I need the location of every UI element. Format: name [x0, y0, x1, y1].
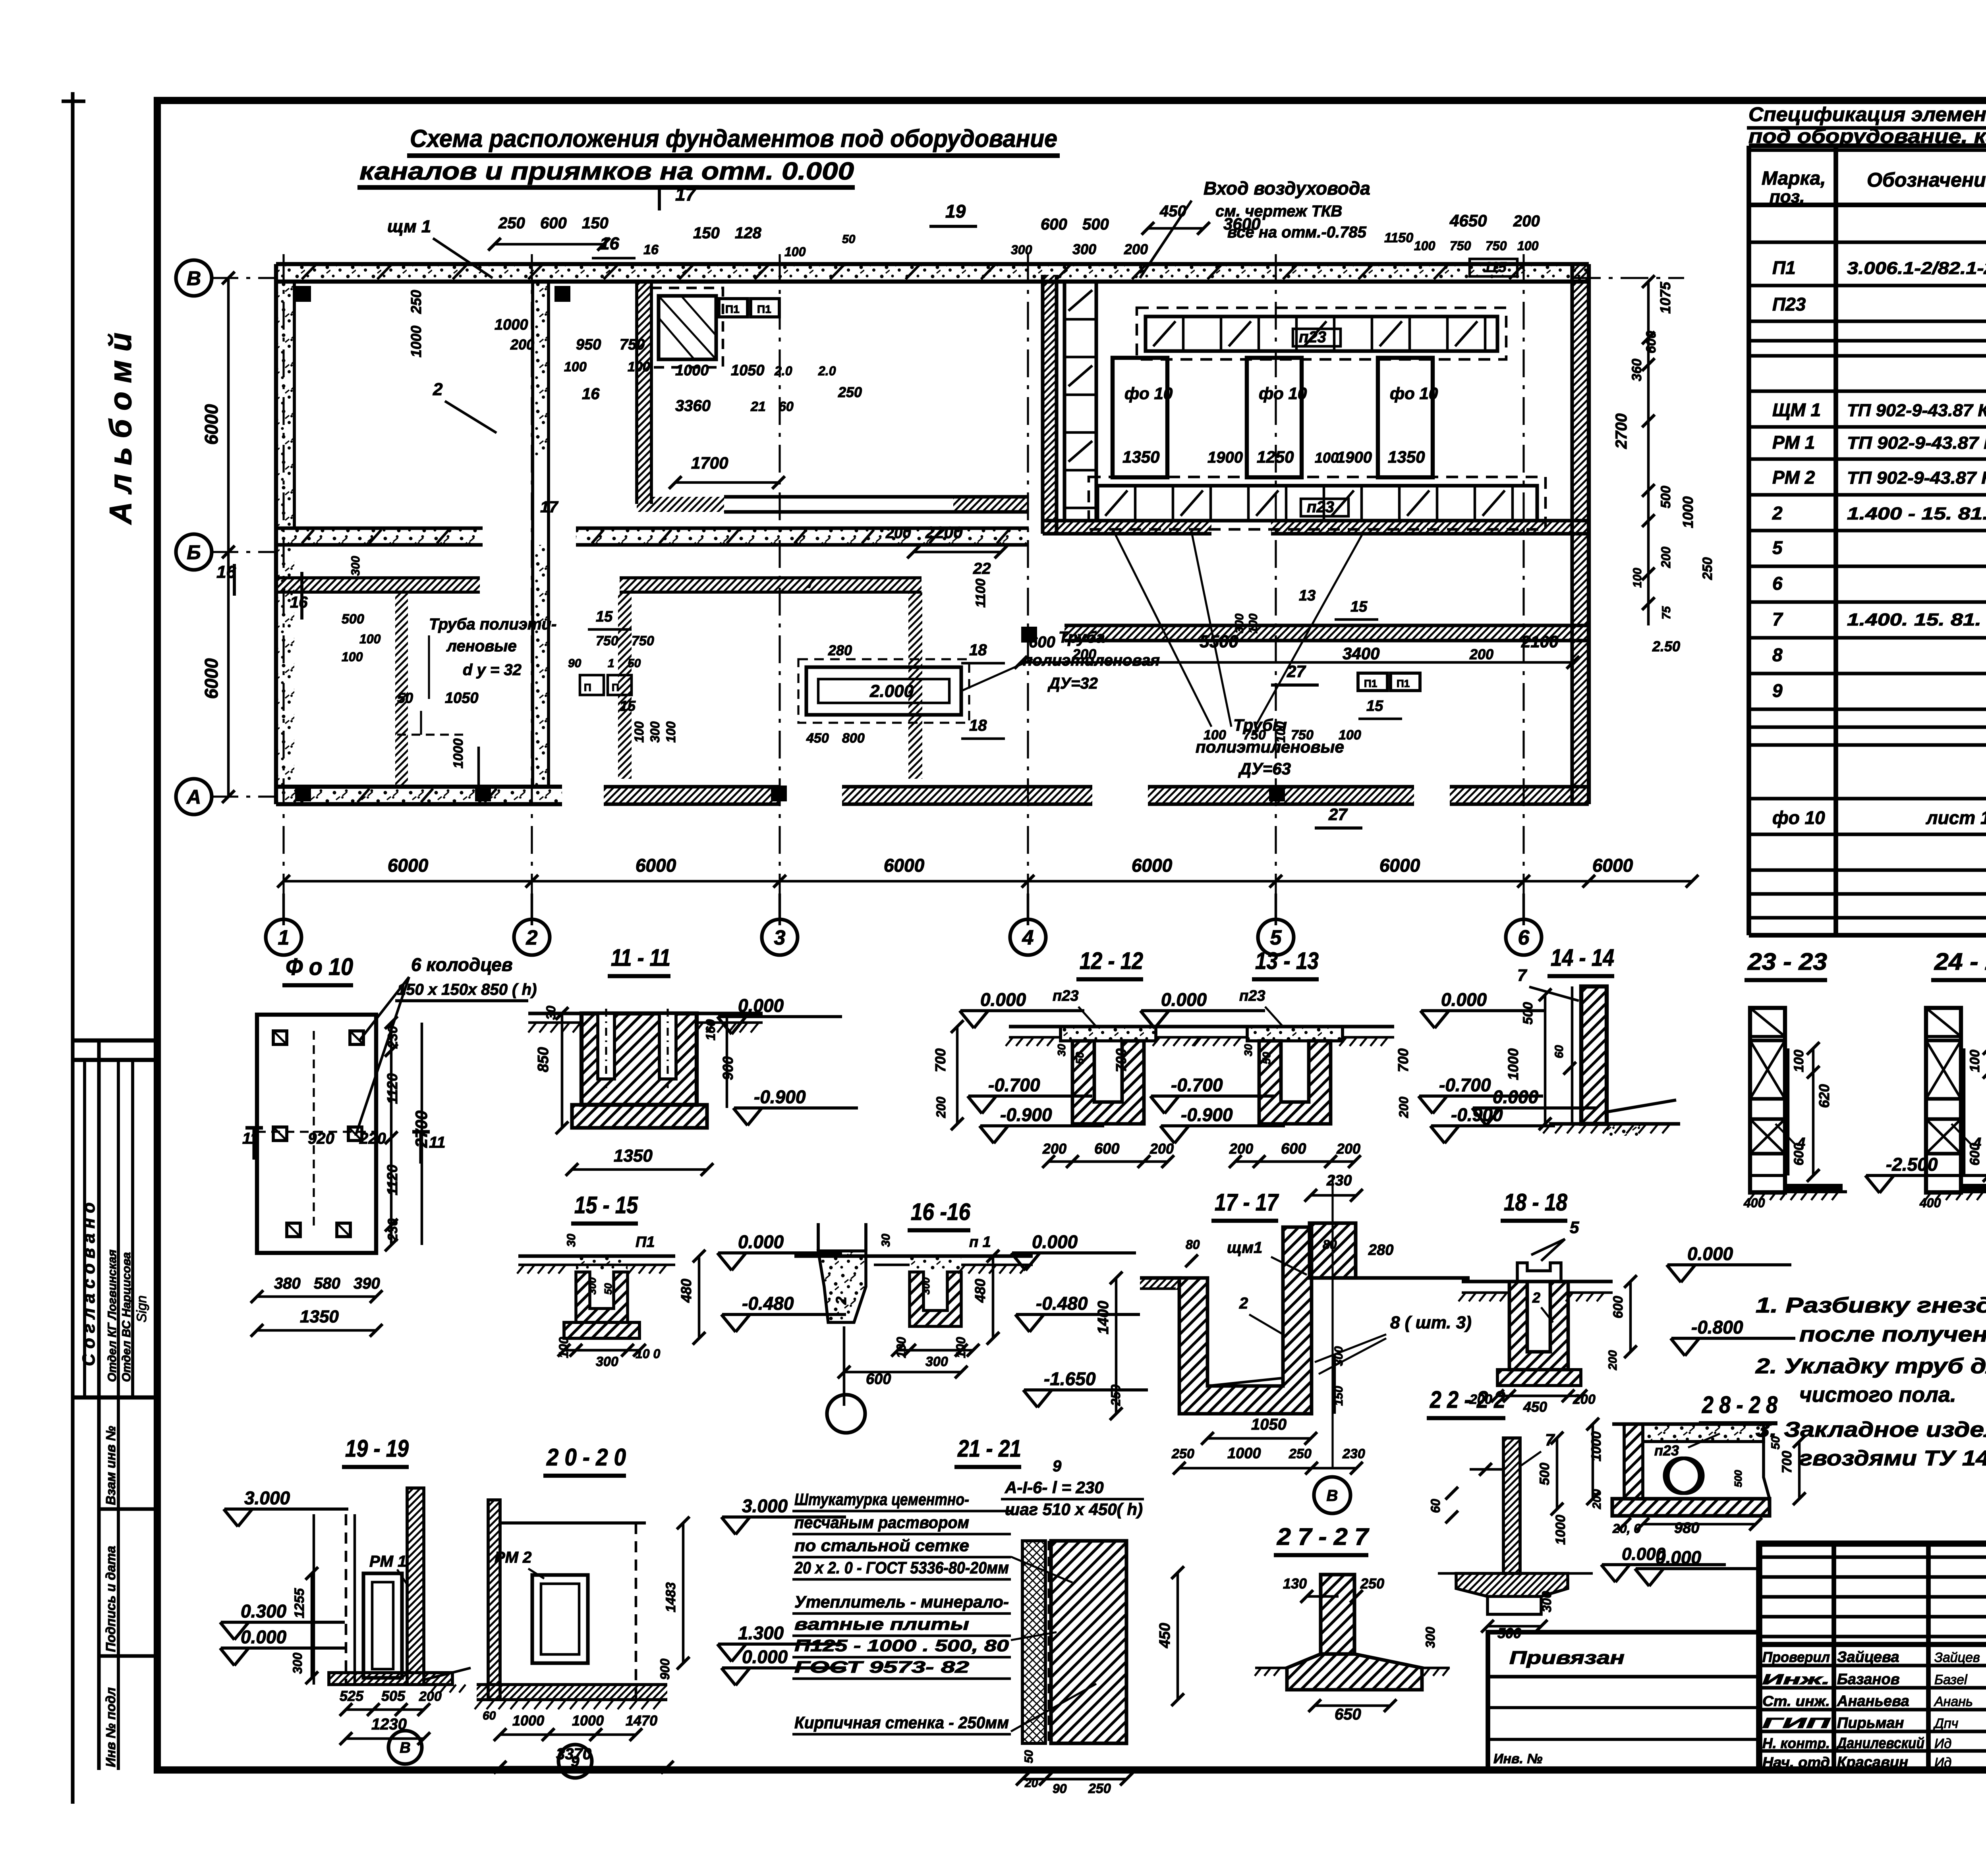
svg-text:Проверил: Проверил: [1762, 1649, 1830, 1665]
svg-text:ДУ=63: ДУ=63: [1238, 759, 1291, 778]
svg-text:1000: 1000: [1505, 1048, 1521, 1080]
svg-text:80: 80: [1323, 1237, 1337, 1252]
svg-text:каналов и приямков на: каналов и приямков на отм. 0.000: [359, 158, 854, 185]
svg-text:1350: 1350: [614, 1146, 653, 1166]
svg-text:390: 390: [354, 1275, 380, 1292]
svg-text:Инв. №: Инв. №: [1493, 1751, 1542, 1766]
svg-text:п23: п23: [1654, 1442, 1679, 1459]
svg-text:100: 100: [1517, 239, 1539, 253]
svg-text:750: 750: [596, 633, 618, 648]
svg-text:300: 300: [596, 1354, 618, 1369]
svg-text:гвоздями ТУ 14 - 4 - 441- 81: гвоздями ТУ 14 - 4 - 441- 81 к подпорной…: [1799, 1446, 1986, 1470]
svg-text:30: 30: [1055, 1044, 1068, 1056]
svg-text:620: 620: [1816, 1084, 1832, 1108]
svg-text:2 2 - 2 2: 2 2 - 2 2: [1430, 1386, 1505, 1413]
svg-text:100: 100: [1631, 568, 1644, 588]
svg-text:16: 16: [290, 594, 308, 611]
svg-text:580: 580: [314, 1275, 340, 1292]
svg-text:3360: 3360: [675, 397, 711, 415]
svg-text:50: 50: [628, 657, 641, 670]
svg-text:-0.900: -0.900: [754, 1087, 806, 1107]
svg-text:п 1: п 1: [969, 1234, 991, 1251]
svg-text:2: 2: [1239, 1295, 1248, 1312]
svg-text:Нач. отд: Нач. отд: [1762, 1754, 1830, 1770]
svg-text:Ф о 10: Ф о 10: [286, 953, 353, 980]
svg-text:6: 6: [1772, 573, 1783, 594]
svg-text:1.400 - 15. 81. 540 - 09: 1.400 - 15. 81. 540 - 09: [1847, 504, 1986, 523]
svg-text:230: 230: [385, 1218, 400, 1241]
channel ladders p23: [1064, 282, 1096, 521]
svg-text:700: 700: [1779, 1451, 1795, 1473]
svg-text:21: 21: [750, 399, 766, 414]
svg-text:4650: 4650: [1449, 211, 1487, 230]
svg-text:Н. контр.: Н. контр.: [1762, 1735, 1830, 1751]
svg-text:11 - 11: 11 - 11: [611, 944, 670, 971]
svg-text:1: 1: [608, 657, 614, 670]
svg-text:480: 480: [972, 1279, 988, 1303]
svg-text:5: 5: [1570, 1218, 1579, 1237]
svg-text:п23: п23: [1239, 988, 1265, 1004]
svg-text:5500: 5500: [1200, 632, 1238, 651]
svg-text:П1: П1: [1364, 677, 1377, 689]
svg-text:300: 300: [1072, 241, 1096, 257]
svg-text:500: 500: [1658, 486, 1673, 508]
svg-text:150 х 150х 850 ( h): 150 х 150х 850 ( h): [397, 981, 537, 998]
floor plan walls: [276, 264, 1589, 282]
svg-text:230: 230: [1342, 1446, 1365, 1461]
svg-text:7: 7: [1517, 966, 1527, 984]
grid axes: [282, 254, 284, 925]
svg-text:6000: 6000: [201, 658, 222, 699]
svg-text:60: 60: [1553, 1045, 1566, 1058]
svg-text:Вход воздуховода: Вход воздуховода: [1204, 178, 1370, 199]
svg-text:60: 60: [483, 1709, 496, 1722]
svg-text:200: 200: [1229, 1141, 1253, 1157]
svg-text:Утеплитель - минерало-: Утеплитель - минерало-: [794, 1592, 1009, 1611]
svg-text:А-I-6- l = 230: А-I-6- l = 230: [1005, 1478, 1104, 1497]
svg-text:Инв № подл: Инв № подл: [103, 1687, 118, 1767]
svg-text:16 -16: 16 -16: [911, 1199, 971, 1225]
svg-text:100: 100: [632, 721, 646, 743]
svg-text:16: 16: [582, 385, 600, 403]
svg-text:ТП 902-9-43.87 КЖИ РМ 1: ТП 902-9-43.87 КЖИ РМ 1: [1847, 433, 1986, 453]
svg-text:15: 15: [596, 608, 613, 625]
svg-text:по стальной сетке: по стальной сетке: [794, 1536, 969, 1555]
svg-text:лист 15: лист 15: [1926, 807, 1986, 828]
svg-text:500: 500: [1082, 216, 1109, 233]
svg-text:12 - 12: 12 - 12: [1080, 948, 1143, 974]
svg-text:200: 200: [510, 336, 534, 353]
svg-text:500: 500: [1520, 1002, 1536, 1025]
svg-text:Пирьман: Пирьман: [1837, 1715, 1904, 1731]
svg-text:1120: 1120: [384, 1165, 400, 1195]
svg-text:600: 600: [1281, 1141, 1306, 1157]
svg-text:после получения оборудования: после получения оборудования.: [1799, 1322, 1986, 1346]
svg-text:75: 75: [1660, 606, 1673, 620]
svg-text:П1: П1: [725, 303, 740, 315]
svg-text:20 х 2. 0 - ГОСТ 5336-80-20мм: 20 х 2. 0 - ГОСТ 5336-80-20мм: [794, 1558, 1009, 1577]
svg-text:6000: 6000: [201, 404, 222, 445]
svg-text:850: 850: [535, 1047, 552, 1072]
svg-text:-0.480: -0.480: [1036, 1293, 1088, 1314]
svg-text:8 ( шт. 3): 8 ( шт. 3): [1390, 1313, 1472, 1332]
svg-text:1350: 1350: [1388, 448, 1425, 466]
vent chamber bottom wall: [1043, 521, 1211, 534]
svg-text:600: 600: [1094, 1141, 1119, 1157]
svg-text:РМ 1: РМ 1: [369, 1553, 406, 1570]
svg-text:160: 160: [703, 1019, 718, 1040]
svg-text:2. Укладку труб для кабеля: 2. Укладку труб для кабеля производить д…: [1755, 1354, 1986, 1378]
svg-text:128: 128: [735, 224, 761, 242]
svg-text:Взам инв №: Взам инв №: [103, 1426, 118, 1505]
svg-text:РМ 1: РМ 1: [1772, 432, 1815, 453]
svg-text:2700: 2700: [1613, 413, 1630, 449]
svg-text:200: 200: [1606, 1350, 1619, 1370]
svg-text:В: В: [1327, 1487, 1338, 1504]
svg-text:600: 600: [1041, 216, 1067, 233]
svg-text:300: 300: [1233, 614, 1246, 633]
svg-text:ватные плиты: ватные плиты: [794, 1615, 969, 1633]
svg-text:15: 15: [1350, 598, 1368, 615]
svg-text:700: 700: [1395, 1048, 1411, 1072]
svg-text:6 колодцев: 6 колодцев: [411, 954, 513, 975]
svg-text:1000: 1000: [1589, 1431, 1604, 1461]
svg-text:2: 2: [526, 926, 538, 950]
svg-text:3400: 3400: [1343, 644, 1379, 663]
svg-text:ТП 902-9-43.87 КЖИ РМ2: ТП 902-9-43.87 КЖИ РМ2: [1847, 468, 1986, 488]
svg-text:1100: 1100: [973, 579, 988, 608]
svg-text:Труба: Труба: [1059, 629, 1105, 646]
svg-text:100: 100: [1315, 450, 1339, 466]
svg-text:50: 50: [1074, 1052, 1086, 1064]
svg-text:2.0: 2.0: [818, 364, 836, 378]
svg-text:500: 500: [1732, 1470, 1744, 1487]
svg-text:2200: 2200: [925, 523, 962, 542]
svg-text:700: 700: [932, 1048, 949, 1072]
svg-text:Данилевский: Данилевский: [1836, 1735, 1924, 1752]
svg-text:600: 600: [866, 1371, 891, 1388]
svg-text:11: 11: [429, 1134, 446, 1151]
svg-text:полиэтиленовые: полиэтиленовые: [1196, 737, 1344, 756]
svg-text:Б: Б: [187, 541, 201, 564]
svg-text:3.000: 3.000: [244, 1488, 290, 1508]
svg-text:400: 400: [1919, 1196, 1941, 1210]
svg-text:200: 200: [934, 1096, 948, 1118]
svg-text:А л ь б о м й: А л ь б о м й: [103, 333, 138, 525]
svg-text:250: 250: [1289, 1446, 1312, 1461]
svg-text:280: 280: [1368, 1242, 1393, 1258]
svg-text:100: 100: [342, 650, 363, 664]
svg-text:0.000: 0.000: [738, 1231, 784, 1252]
svg-text:30: 30: [565, 1233, 578, 1247]
svg-text:чистого пола.: чистого пола.: [1799, 1383, 1956, 1407]
svg-text:П125 - 1000 . 500, 80: П125 - 1000 . 500, 80: [794, 1636, 1009, 1655]
svg-text:450: 450: [1523, 1399, 1547, 1415]
svg-text:90: 90: [568, 657, 582, 670]
svg-text:фо 10: фо 10: [1390, 384, 1438, 403]
svg-text:200: 200: [1659, 546, 1673, 568]
svg-text:5: 5: [1772, 537, 1783, 558]
svg-text:0.000: 0.000: [738, 995, 784, 1016]
svg-text:-0.700: -0.700: [1171, 1075, 1223, 1095]
svg-text:100: 100: [664, 721, 678, 743]
svg-text:50: 50: [602, 1283, 614, 1295]
svg-text:-0.480: -0.480: [742, 1293, 794, 1314]
svg-text:фо 10: фо 10: [1772, 807, 1825, 828]
svg-text:1255: 1255: [292, 1588, 307, 1618]
svg-text:П1: П1: [1397, 677, 1410, 689]
svg-text:80: 80: [1186, 1237, 1200, 1252]
svg-text:600: 600: [540, 214, 567, 232]
svg-text:250: 250: [1109, 1384, 1123, 1406]
svg-text:2 8 - 2 8: 2 8 - 2 8: [1702, 1392, 1777, 1418]
svg-text:11: 11: [242, 1130, 259, 1147]
svg-text:1050: 1050: [445, 690, 479, 706]
svg-text:500: 500: [342, 612, 364, 627]
svg-text:450: 450: [1157, 1623, 1173, 1648]
svg-text:300: 300: [920, 1277, 932, 1295]
svg-text:поз.: поз.: [1770, 187, 1804, 207]
svg-text:1050: 1050: [731, 362, 765, 379]
svg-text:250: 250: [1088, 1781, 1111, 1796]
svg-text:1.300: 1.300: [738, 1623, 784, 1643]
svg-text:250: 250: [408, 290, 424, 314]
svg-text:15: 15: [620, 698, 636, 714]
svg-text:600: 600: [1611, 1296, 1626, 1318]
svg-text:250: 250: [838, 384, 862, 400]
svg-text:п23: п23: [1299, 328, 1326, 346]
svg-text:Схема расположения фунда: Схема расположения фундаментов под обору…: [410, 125, 1057, 152]
svg-text:18: 18: [969, 717, 987, 734]
svg-text:100: 100: [1967, 1050, 1982, 1072]
svg-text:d у = 32: d у = 32: [463, 661, 522, 679]
svg-text:-0.700: -0.700: [988, 1075, 1040, 1095]
channel 2000 detail: [806, 667, 961, 715]
svg-text:1900: 1900: [1337, 449, 1372, 466]
svg-text:600: 600: [1791, 1143, 1806, 1166]
svg-text:-1.650: -1.650: [1044, 1368, 1096, 1389]
svg-text:30: 30: [1242, 1044, 1254, 1056]
svg-text:П: П: [612, 681, 619, 693]
svg-text:3.006.1-2/82.1-2-1.0 - 000: 3.006.1-2/82.1-2-1.0 - 000: [1847, 259, 1986, 278]
svg-text:18: 18: [969, 641, 987, 659]
svg-text:100: 100: [1791, 1050, 1806, 1072]
svg-text:ТП 902-9-43.87 КЖИ ЩМ1: ТП 902-9-43.87 КЖИ ЩМ1: [1847, 401, 1986, 420]
svg-text:Анань: Анань: [1934, 1694, 1973, 1709]
svg-text:Спецификация элементов к с: Спецификация элементов к схеме расположе…: [1748, 103, 1986, 125]
svg-text:250: 250: [1700, 557, 1715, 580]
svg-text:23 - 23: 23 - 23: [1747, 948, 1827, 975]
svg-text:900: 900: [658, 1658, 672, 1680]
svg-text:220: 220: [359, 1130, 386, 1147]
svg-text:30: 30: [879, 1233, 893, 1247]
svg-text:0.000: 0.000: [1032, 1231, 1078, 1252]
svg-text:230: 230: [1326, 1172, 1352, 1189]
svg-text:Отдел ВС Нарцисова: Отдел ВС Нарцисова: [120, 1252, 133, 1382]
svg-text:всё на отм.-0.785: всё на отм.-0.785: [1227, 224, 1367, 241]
svg-text:П: П: [584, 681, 591, 693]
left strip table: [73, 1038, 157, 1042]
svg-text:Штукатурка цементно-: Штукатурка цементно-: [794, 1490, 969, 1509]
svg-text:Базel: Базel: [1934, 1672, 1968, 1687]
svg-text:280: 280: [828, 642, 852, 658]
svg-text:фо 10: фо 10: [1124, 384, 1173, 403]
svg-text:300: 300: [648, 721, 662, 743]
svg-text:450: 450: [1159, 203, 1186, 220]
svg-text:5: 5: [1270, 926, 1282, 950]
svg-text:50: 50: [1260, 1052, 1273, 1064]
svg-text:14 - 14: 14 - 14: [1551, 944, 1614, 971]
svg-text:100: 100: [564, 359, 587, 374]
svg-text:П23: П23: [1772, 294, 1806, 315]
svg-text:1.400. 15. 81. 110 - 10: 1.400. 15. 81. 110 - 10: [1847, 610, 1986, 629]
svg-text:24 - 24: 24 - 24: [1934, 948, 1986, 975]
svg-text:250: 250: [1171, 1446, 1194, 1461]
svg-text:1050: 1050: [1251, 1416, 1287, 1433]
svg-text:1000: 1000: [675, 362, 709, 379]
svg-text:1075: 1075: [1657, 282, 1673, 314]
svg-text:6000: 6000: [1592, 855, 1633, 876]
svg-text:-0.700: -0.700: [1439, 1075, 1491, 1095]
svg-text:200: 200: [1513, 212, 1540, 230]
svg-text:150: 150: [582, 214, 609, 232]
title block: [1759, 1544, 1986, 1770]
svg-text:100: 100: [1414, 239, 1435, 253]
grid circles bottom: [266, 919, 301, 955]
svg-text:Марка,: Марка,: [1762, 168, 1826, 189]
svg-text:0.000: 0.000: [1687, 1243, 1733, 1264]
svg-text:700: 700: [1113, 1048, 1129, 1072]
svg-text:1150: 1150: [1384, 230, 1413, 245]
svg-text:Привязан: Привязан: [1509, 1647, 1625, 1668]
svg-text:1000: 1000: [451, 738, 466, 768]
svg-text:В: В: [187, 267, 201, 290]
svg-text:200: 200: [419, 1689, 442, 1704]
svg-text:2: 2: [833, 1297, 849, 1305]
left vertical dimension 6000: [227, 278, 230, 797]
fo10 foundations: [1113, 358, 1167, 477]
svg-text:200: 200: [1469, 646, 1493, 662]
svg-text:2: 2: [1772, 503, 1783, 523]
svg-text:Ид: Ид: [1934, 1736, 1951, 1751]
svg-text:300: 300: [586, 1277, 598, 1295]
svg-text:Обозначение: Обозначение: [1867, 169, 1986, 191]
svg-text:7: 7: [806, 574, 816, 591]
svg-text:Ид: Ид: [1934, 1755, 1951, 1770]
svg-text:400: 400: [1743, 1196, 1765, 1210]
svg-text:250: 250: [498, 214, 525, 232]
svg-text:16: 16: [643, 242, 659, 257]
svg-text:115: 115: [1484, 259, 1507, 275]
svg-text:0.000: 0.000: [1656, 1547, 1702, 1568]
svg-text:750: 750: [620, 336, 645, 353]
svg-text:0.000: 0.000: [241, 1627, 287, 1647]
svg-text:90: 90: [1053, 1781, 1067, 1796]
svg-text:15 - 15: 15 - 15: [574, 1192, 638, 1218]
svg-text:130: 130: [1283, 1575, 1307, 1592]
svg-text:1350: 1350: [300, 1307, 339, 1326]
svg-text:3. Закладное изделие п: 3. Закладное изделие поз. 4 пристрелить …: [1756, 1418, 1986, 1442]
21-21 wall section: [1022, 1541, 1045, 1743]
svg-text:Sign: Sign: [134, 1295, 149, 1322]
svg-text:500: 500: [1537, 1463, 1552, 1485]
svg-text:17: 17: [540, 498, 558, 516]
svg-text:2 0 - 2 0: 2 0 - 2 0: [546, 1444, 626, 1471]
svg-text:Инж.: Инж.: [1762, 1671, 1830, 1687]
privyazan box: [1488, 1632, 1759, 1770]
svg-text:250: 250: [1360, 1575, 1384, 1592]
svg-text:6: 6: [1518, 926, 1530, 950]
svg-text:2 7 - 2 7: 2 7 - 2 7: [1277, 1523, 1370, 1550]
svg-text:Труба полиэти-: Труба полиэти-: [429, 616, 556, 633]
svg-text:21 - 21: 21 - 21: [957, 1435, 1021, 1462]
svg-text:А: А: [186, 786, 201, 808]
svg-text:-0.900: -0.900: [1181, 1104, 1233, 1125]
svg-text:1470: 1470: [626, 1712, 657, 1729]
svg-text:505: 505: [381, 1688, 406, 1704]
svg-text:Зайцев: Зайцев: [1934, 1650, 1980, 1665]
svg-text:800: 800: [842, 731, 865, 746]
svg-text:1000: 1000: [408, 326, 424, 357]
svg-text:200: 200: [1124, 241, 1148, 257]
svg-text:щм 1: щм 1: [387, 217, 431, 236]
svg-text:360: 360: [1629, 359, 1644, 381]
svg-text:6000: 6000: [884, 855, 925, 876]
svg-text:П1: П1: [757, 303, 771, 315]
svg-text:РМ 2: РМ 2: [1772, 467, 1815, 488]
svg-text:300: 300: [349, 556, 362, 576]
svg-text:9: 9: [571, 1754, 579, 1770]
svg-text:ЩМ 1: ЩМ 1: [1772, 400, 1821, 420]
svg-text:Зайцева: Зайцева: [1837, 1649, 1899, 1666]
svg-text:19: 19: [945, 201, 966, 222]
vent chamber left wall: [1043, 275, 1057, 534]
svg-text:1000: 1000: [495, 317, 528, 333]
svg-text:230: 230: [385, 1026, 400, 1049]
svg-text:27: 27: [1328, 805, 1348, 824]
svg-text:0.000: 0.000: [1493, 1087, 1539, 1107]
svg-text:шаг 510 х 450( h): шаг 510 х 450( h): [1005, 1500, 1143, 1519]
svg-text:15: 15: [1366, 698, 1383, 714]
svg-text:6000: 6000: [1132, 855, 1173, 876]
RM2 frame: [532, 1575, 588, 1663]
shower pan: [659, 296, 716, 359]
svg-text:300: 300: [1423, 1627, 1437, 1648]
svg-text:-0.800: -0.800: [1691, 1317, 1743, 1338]
svg-text:Базанов: Базанов: [1837, 1671, 1900, 1688]
svg-text:2.000: 2.000: [869, 681, 914, 701]
svg-text:2: 2: [1532, 1289, 1540, 1306]
svg-text:50: 50: [842, 233, 856, 246]
svg-text:22: 22: [973, 560, 991, 577]
svg-text:525: 525: [340, 1688, 364, 1704]
svg-text:6000: 6000: [388, 855, 429, 876]
svg-text:щм1: щм1: [1227, 1239, 1262, 1256]
svg-text:Кирпичная стенка - 250мм: Кирпичная стенка - 250мм: [794, 1713, 1009, 1732]
svg-text:19 - 19: 19 - 19: [345, 1435, 409, 1462]
svg-text:1000: 1000: [512, 1712, 544, 1729]
svg-text:-0.900: -0.900: [1000, 1104, 1052, 1125]
svg-text:200: 200: [1590, 1489, 1603, 1509]
P1 boxes right pair: [1358, 673, 1387, 691]
svg-text:-2.500: -2.500: [1886, 1154, 1938, 1175]
svg-text:200: 200: [1042, 1141, 1066, 1157]
svg-text:2.0: 2.0: [774, 364, 792, 378]
svg-text:50: 50: [397, 690, 413, 706]
svg-text:650: 650: [1335, 1706, 1361, 1723]
svg-text:песчаным раствором: песчаным раствором: [794, 1513, 969, 1532]
svg-text:950: 950: [576, 336, 601, 353]
